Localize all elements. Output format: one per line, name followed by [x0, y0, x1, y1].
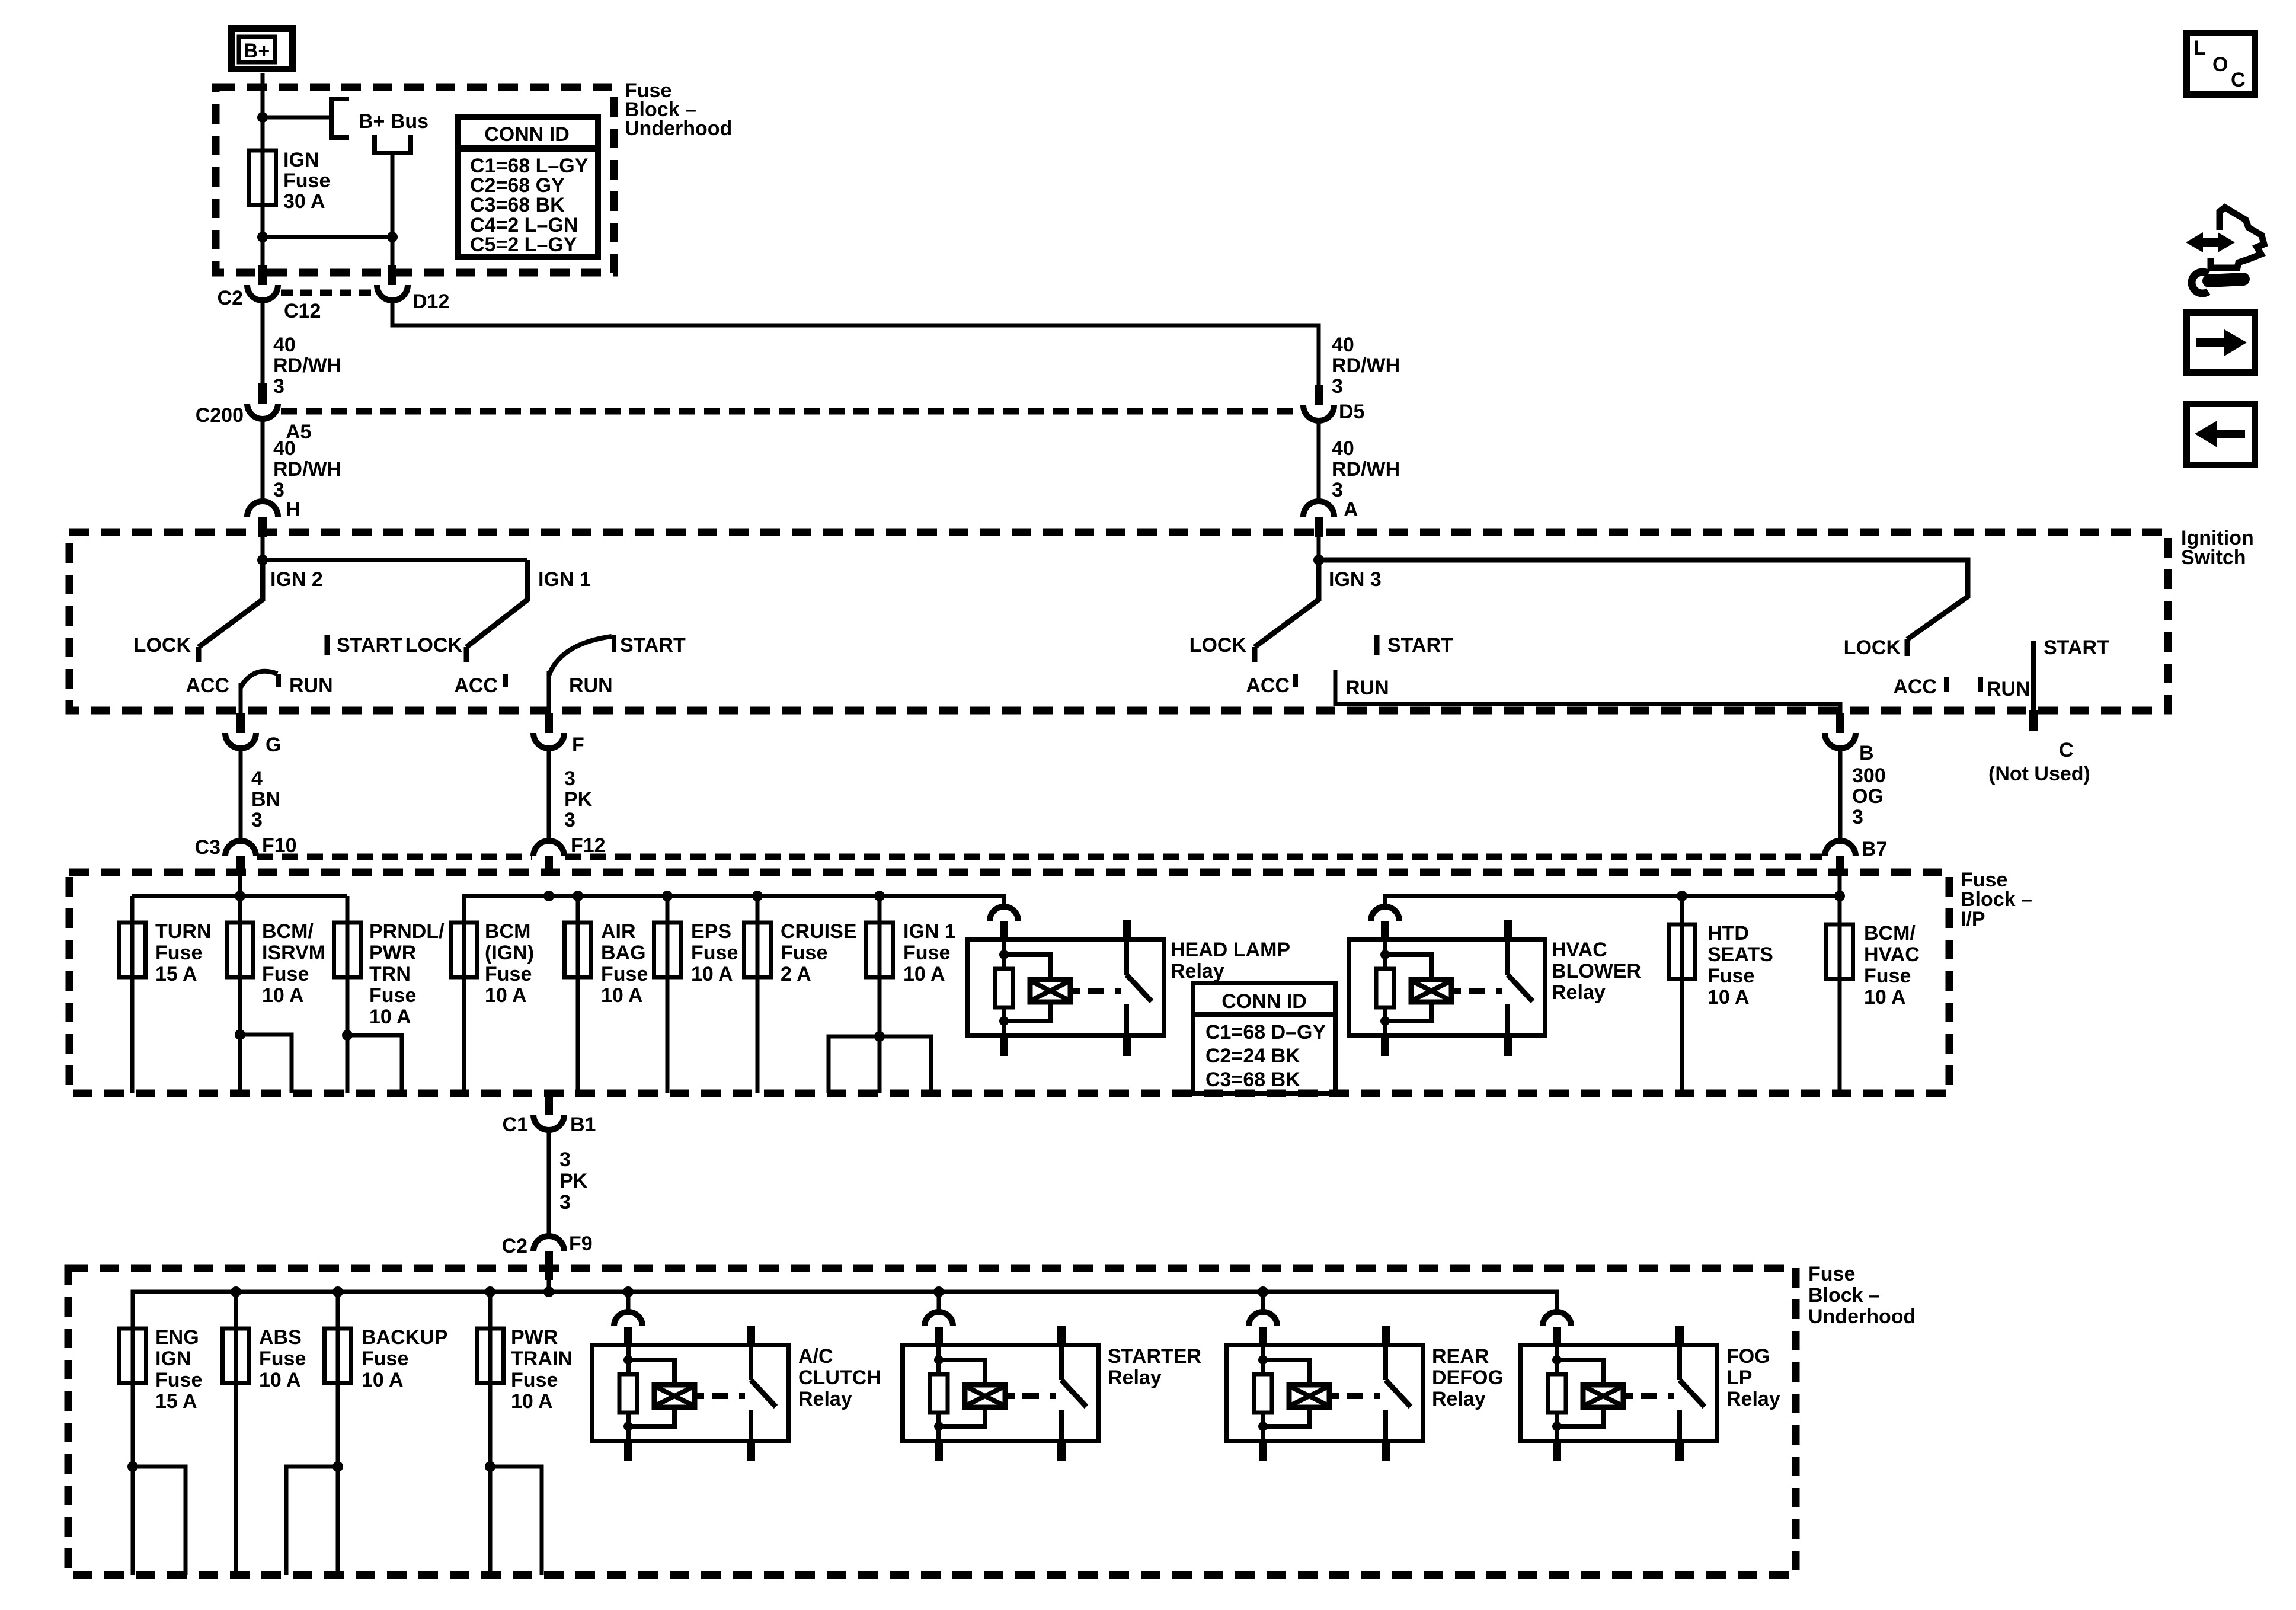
wire B to B7: [1838, 747, 1843, 842]
wire EPS fuse column: [666, 896, 670, 1093]
wire D5 to A: [1317, 421, 1321, 501]
svg-text:H: H: [286, 498, 300, 521]
connector D5 stub: [1315, 385, 1323, 405]
wire BACKUP fuse column: [336, 1292, 340, 1575]
connector F: [533, 733, 584, 756]
Fuse Block Underhood dashed box: [216, 87, 614, 273]
svg-text:F: F: [572, 734, 584, 756]
svg-text:LOCK: LOCK: [1189, 634, 1247, 657]
node BACKUP branch junction: [332, 1461, 343, 1472]
svg-text:4: 4: [251, 767, 263, 790]
svg-text:ISRVM: ISRVM: [262, 942, 325, 964]
svg-text:2 A: 2 A: [781, 963, 811, 985]
svg-text:(Not Used): (Not Used): [1988, 763, 2090, 785]
node F12 right bus junction: [543, 891, 554, 901]
svg-text:PRNDL/: PRNDL/: [369, 920, 445, 943]
connector link C200-D5 dashed: [281, 408, 1300, 415]
svg-text:START: START: [337, 634, 402, 657]
svg-text:Fuse: Fuse: [362, 1347, 408, 1370]
wire IGN3 bus: [1319, 558, 1968, 562]
svg-text:HTD: HTD: [1707, 922, 1749, 945]
node PRNDL branch junction: [342, 1030, 353, 1041]
connector D12 stub: [388, 265, 396, 285]
connector link C12-D12 dashed: [281, 290, 374, 296]
fuse BCM/ISRVM Fuse 10 A: [227, 920, 326, 1007]
relay HEAD LAMP: [968, 907, 1290, 1056]
svg-text:START: START: [1387, 634, 1453, 657]
connector C2 stub: [258, 265, 267, 285]
svg-text:IGN 3: IGN 3: [1329, 568, 1382, 591]
relay A/C CLUTCH: [592, 1312, 881, 1461]
node IGN3 bus junction: [1313, 555, 1324, 565]
svg-text:PWR: PWR: [511, 1326, 558, 1349]
switch IGN2 RUN contact: [279, 674, 333, 697]
wire ENG IGN fuse column: [131, 1329, 135, 1575]
svg-text:Fuse: Fuse: [1864, 965, 1911, 987]
connector A stub: [1315, 517, 1323, 537]
Fuse Block I/P dashed box: [69, 872, 1949, 1093]
svg-text:STARTER: STARTER: [1108, 1345, 1201, 1368]
switch 4 LOCK contact: [1844, 636, 1907, 659]
svg-text:BCM: BCM: [485, 920, 530, 943]
connector B: [1825, 733, 1874, 764]
wire PRNDL branch: [347, 1035, 402, 1093]
svg-text:G: G: [266, 734, 281, 756]
label IGN 1: [538, 568, 591, 591]
connector C3/F10 stub: [236, 856, 245, 876]
svg-text:A: A: [1344, 498, 1358, 521]
svg-text:HVAC: HVAC: [1864, 943, 1920, 966]
node BCM/HVAC junction: [1834, 891, 1845, 901]
svg-text:Fuse: Fuse: [781, 942, 827, 964]
svg-text:CLUTCH: CLUTCH: [798, 1366, 881, 1389]
label 40 RD/WH 3 right upper: [1332, 334, 1400, 398]
relay REAR DEFOG: [1227, 1312, 1504, 1461]
switch 4 wiper arm: [1319, 560, 1968, 639]
svg-text:F10: F10: [262, 834, 297, 857]
switch IGN1 wiper arm: [466, 560, 527, 647]
svg-text:3: 3: [564, 767, 575, 790]
svg-text:Fuse: Fuse: [262, 963, 309, 985]
svg-text:Fuse: Fuse: [1707, 965, 1754, 987]
svg-text:10 A: 10 A: [601, 984, 643, 1007]
svg-text:IGN: IGN: [155, 1347, 191, 1370]
svg-text:RUN: RUN: [289, 674, 333, 697]
switch IGN2 ACC contact: [186, 674, 229, 697]
node PWR TRAIN branch junction: [485, 1461, 495, 1472]
svg-text:Underhood: Underhood: [625, 117, 732, 140]
label IGN 3: [1329, 568, 1382, 591]
wire IGN2/IGN1 bus: [263, 558, 527, 562]
svg-text:10 A: 10 A: [485, 984, 527, 1007]
wire A into switch: [1317, 537, 1321, 560]
svg-text:C1: C1: [503, 1113, 528, 1136]
svg-text:PK: PK: [559, 1170, 588, 1192]
label Fuse Block - Underhood: [625, 79, 732, 140]
connector B7 stub: [1836, 856, 1844, 876]
svg-text:C12: C12: [284, 300, 321, 322]
wire CRUISE fuse column: [756, 896, 760, 1093]
connector C1/B1 stub: [545, 1093, 553, 1115]
svg-text:3: 3: [273, 375, 284, 398]
svg-text:START: START: [620, 634, 686, 657]
svg-text:Fuse: Fuse: [511, 1369, 558, 1391]
switch IGN3 START contact: [1377, 634, 1453, 657]
fuse ABS Fuse 10 A: [223, 1326, 306, 1391]
svg-text:10 A: 10 A: [362, 1369, 404, 1391]
svg-text:RUN: RUN: [1345, 677, 1389, 699]
node CRUISE junction: [752, 891, 763, 901]
svg-text:C2: C2: [218, 287, 243, 309]
svg-text:3: 3: [273, 479, 284, 501]
connector H stub: [258, 517, 267, 537]
label Fuse Block - Underhood lower: [1808, 1263, 1916, 1328]
icon LOC box: [2187, 33, 2255, 95]
switch IGN3 ACC contact: [1246, 674, 1296, 697]
svg-text:10 A: 10 A: [511, 1390, 553, 1413]
wire ABS fuse column: [234, 1292, 238, 1575]
connector C2/C12: [218, 285, 321, 322]
svg-text:Fuse: Fuse: [259, 1347, 306, 1370]
wire F9 into underhood block: [547, 1280, 551, 1292]
svg-text:F9: F9: [569, 1233, 593, 1255]
svg-text:D12: D12: [412, 290, 449, 313]
svg-text:O: O: [2212, 53, 2228, 76]
wire fuse output crossover: [263, 235, 392, 239]
CONN ID table underhood: [458, 117, 598, 257]
node AIR BAG junction: [573, 891, 583, 901]
svg-text:ENG: ENG: [155, 1326, 199, 1349]
svg-text:TRN: TRN: [369, 963, 411, 985]
label 4 BN 3: [251, 767, 280, 831]
icon forward arrow box: [2187, 313, 2255, 373]
svg-text:REAR: REAR: [1432, 1345, 1489, 1368]
svg-text:BN: BN: [251, 788, 280, 811]
svg-text:Underhood: Underhood: [1808, 1305, 1916, 1328]
svg-text:LOCK: LOCK: [1844, 636, 1901, 659]
svg-text:SEATS: SEATS: [1707, 943, 1773, 966]
switch IGN2 START contact: [327, 634, 402, 657]
svg-text:B+ Bus: B+ Bus: [359, 110, 428, 133]
connector C200 stub: [258, 383, 267, 404]
svg-text:10 A: 10 A: [262, 984, 304, 1007]
wire PRNDL fuse column: [346, 896, 350, 1093]
svg-text:C: C: [2231, 69, 2246, 91]
svg-text:Relay: Relay: [1552, 981, 1606, 1004]
B+ Bus terminal bracket: [331, 99, 349, 137]
svg-text:Fuse: Fuse: [903, 942, 950, 964]
svg-text:OG: OG: [1852, 785, 1884, 808]
wire right I/P bus: [464, 896, 1004, 923]
svg-text:HEAD LAMP: HEAD LAMP: [1171, 939, 1290, 961]
fuse PWR TRAIN Fuse 10 A: [477, 1326, 573, 1413]
label 40 RD/WH 3 left lower: [273, 437, 341, 501]
wire F10 to C1 column: [238, 876, 242, 1093]
switch IGN2 wiper arm: [199, 560, 263, 647]
svg-text:Fuse: Fuse: [155, 1369, 202, 1391]
connector A: [1303, 498, 1358, 521]
connector D12: [377, 285, 449, 313]
svg-text:BAG: BAG: [601, 942, 646, 964]
connector C2/F9: [502, 1233, 593, 1257]
svg-text:C3: C3: [195, 836, 220, 859]
switch 4 ACC contact: [1893, 676, 1946, 698]
switch IGN2 LOCK contact: [134, 634, 199, 662]
node IGN 1 branch junction: [874, 1031, 885, 1042]
svg-text:300: 300: [1852, 764, 1886, 787]
svg-text:RUN: RUN: [569, 674, 613, 697]
switch 4 RUN contact: [1981, 677, 2030, 700]
svg-text:TURN: TURN: [155, 920, 211, 943]
svg-text:LOCK: LOCK: [405, 634, 463, 657]
wire A5 to H: [261, 419, 265, 501]
svg-text:3: 3: [251, 809, 263, 831]
node STARTER relay junction: [933, 1286, 944, 1297]
svg-text:10 A: 10 A: [691, 963, 733, 985]
wire B+ to IGN fuse: [261, 73, 265, 266]
fuse HTD SEATS Fuse 10 A: [1669, 922, 1773, 1009]
wire D12 to D5: [392, 299, 1319, 385]
svg-text:CRUISE: CRUISE: [781, 920, 856, 943]
label B+ Bus: [359, 110, 428, 133]
svg-text:D5: D5: [1339, 401, 1364, 423]
svg-text:3: 3: [559, 1191, 571, 1214]
wire H into switch: [261, 537, 265, 560]
connector F stub: [545, 713, 553, 733]
wire PWR TRAIN fuse column: [488, 1292, 493, 1575]
connector G stub: [236, 713, 245, 733]
wire IGN 1 fuse branch: [829, 1036, 931, 1093]
icon vehicle service symbol: [2186, 207, 2264, 293]
label Fuse Block - I/P: [1961, 869, 2032, 930]
node REAR DEFOG relay junction: [1258, 1286, 1268, 1297]
connector C2/F9 stub: [545, 1251, 553, 1280]
Ignition Switch dashed box: [69, 532, 2168, 710]
svg-text:Relay: Relay: [798, 1388, 852, 1410]
svg-text:3: 3: [559, 1148, 571, 1171]
wire IGN 1 fuse column: [878, 896, 882, 1093]
label 3 PK 3: [564, 767, 593, 831]
svg-text:C3=68 BK: C3=68 BK: [1205, 1068, 1300, 1091]
fuse CRUISE Fuse 2 A: [744, 920, 857, 985]
wire STARTER relay drop: [937, 1292, 941, 1313]
svg-text:ACC: ACC: [1893, 676, 1937, 698]
svg-text:ACC: ACC: [1246, 674, 1290, 697]
svg-text:PK: PK: [564, 788, 593, 811]
label Ignition Switch: [2181, 527, 2254, 569]
label 300 OG 3: [1852, 764, 1886, 828]
node F9 bus junction: [543, 1286, 554, 1297]
switch IGN1 RUN-START wiper: [549, 636, 612, 676]
svg-text:HVAC: HVAC: [1552, 939, 1607, 961]
connector C200/A5: [196, 404, 312, 443]
wire G to F10: [239, 747, 243, 842]
svg-text:Switch: Switch: [2181, 546, 2246, 569]
switch IGN1 START contact: [614, 634, 686, 657]
svg-text:3: 3: [1332, 375, 1343, 398]
wire C2 to C200: [261, 299, 265, 383]
wire BCM IGN fuse column: [462, 923, 466, 1093]
svg-text:C5=2 L–GY: C5=2 L–GY: [470, 233, 577, 256]
svg-text:Relay: Relay: [1171, 960, 1224, 982]
label C (Not Used): [1988, 739, 2090, 785]
wire BACKUP branch: [286, 1467, 338, 1575]
fuse AIR BAG Fuse 10 A: [565, 920, 648, 1007]
CONN ID table I/P: [1193, 983, 1335, 1093]
svg-text:F12: F12: [571, 834, 606, 857]
svg-text:Fuse: Fuse: [601, 963, 648, 985]
B+ Bus feed bracket: [375, 135, 411, 153]
svg-text:C200: C200: [196, 404, 244, 427]
connector F12 stub: [545, 856, 553, 876]
svg-text:LOCK: LOCK: [134, 634, 191, 657]
svg-text:ACC: ACC: [454, 674, 498, 697]
svg-text:RD/WH: RD/WH: [273, 458, 341, 481]
fuse IGN Fuse 30 A: [250, 149, 331, 213]
svg-text:L: L: [2193, 37, 2206, 59]
wire B+ Bus to D12: [391, 155, 395, 266]
label 3 PK 3 lower: [559, 1148, 588, 1214]
wire underhood bus: [133, 1292, 1557, 1329]
svg-text:40: 40: [273, 334, 296, 356]
wire HVAC section bus: [1385, 896, 1840, 906]
fuse IGN 1 Fuse 10 A: [866, 920, 956, 985]
svg-text:3: 3: [1332, 479, 1343, 501]
svg-text:Relay: Relay: [1726, 1388, 1780, 1410]
svg-text:C1=68 D–GY: C1=68 D–GY: [1205, 1021, 1326, 1044]
switch IGN2 ACC-RUN wiper: [241, 671, 277, 687]
node EPS junction: [662, 891, 673, 901]
svg-text:40: 40: [1332, 334, 1354, 356]
svg-text:B: B: [1859, 742, 1874, 764]
wire B1 to C2/F9: [547, 1129, 551, 1236]
svg-text:ABS: ABS: [259, 1326, 302, 1349]
relay STARTER: [903, 1312, 1201, 1461]
svg-text:PWR: PWR: [369, 942, 416, 964]
svg-text:15 A: 15 A: [155, 963, 197, 985]
svg-text:15 A: 15 A: [155, 1390, 197, 1413]
svg-text:FOG: FOG: [1726, 1345, 1770, 1368]
wire ENG IGN branch: [133, 1467, 186, 1575]
wire ACC output to G: [239, 683, 243, 713]
wire F to F12: [547, 747, 551, 842]
fuse BACKUP Fuse 10 A: [325, 1326, 448, 1391]
svg-text:Relay: Relay: [1432, 1388, 1486, 1410]
svg-text:40: 40: [1332, 437, 1354, 460]
node ABS junction: [231, 1286, 241, 1297]
wire A/C relay drop: [626, 1292, 631, 1313]
svg-text:B+: B+: [244, 40, 270, 62]
svg-text:EPS: EPS: [691, 920, 731, 943]
Fuse Block Underhood lower dashed box: [68, 1268, 1796, 1575]
fuse EPS Fuse 10 A: [654, 920, 738, 985]
fuse BCM/HVAC Fuse 10 A: [1827, 922, 1920, 1009]
connector B stub: [1836, 713, 1844, 733]
svg-text:Fuse: Fuse: [283, 169, 330, 192]
relay HVAC BLOWER: [1349, 907, 1641, 1056]
fuse TURN Fuse 15 A: [119, 920, 212, 985]
svg-text:A/C: A/C: [798, 1345, 833, 1368]
svg-text:RD/WH: RD/WH: [1332, 458, 1400, 481]
node IGN 1 fuse junction: [874, 891, 885, 901]
svg-text:3: 3: [564, 809, 575, 831]
svg-text:Fuse: Fuse: [155, 942, 202, 964]
svg-text:Fuse: Fuse: [1808, 1263, 1855, 1285]
switch IGN1 LOCK contact: [405, 634, 466, 662]
svg-text:BCM/: BCM/: [1864, 922, 1916, 945]
svg-text:DEFOG: DEFOG: [1432, 1366, 1504, 1389]
wire HTD SEATS fuse column: [1680, 896, 1684, 1093]
svg-text:BACKUP: BACKUP: [362, 1326, 447, 1349]
connector row dashed link F10-F12-B7: [257, 854, 1822, 860]
svg-text:BCM/: BCM/: [262, 920, 314, 943]
svg-text:Fuse: Fuse: [691, 942, 738, 964]
node B+ bus junction: [257, 112, 268, 123]
wire REAR DEFOG relay drop: [1261, 1292, 1265, 1313]
svg-text:START: START: [2044, 636, 2109, 659]
svg-text:ACC: ACC: [186, 674, 229, 697]
svg-text:TRAIN: TRAIN: [511, 1347, 573, 1370]
svg-text:CONN ID: CONN ID: [484, 123, 570, 146]
svg-text:10 A: 10 A: [903, 963, 945, 985]
svg-text:BLOWER: BLOWER: [1552, 960, 1641, 982]
svg-text:B1: B1: [570, 1113, 596, 1136]
svg-text:Fuse: Fuse: [369, 984, 416, 1007]
junction at D12 branch: [387, 232, 398, 242]
switch 4 START contact wire: [2033, 636, 2109, 710]
svg-text:Block –: Block –: [1808, 1284, 1880, 1307]
icon back arrow box: [2187, 404, 2255, 465]
node HTD SEATS junction: [1677, 891, 1687, 901]
svg-text:Relay: Relay: [1108, 1366, 1162, 1389]
connector D5: [1303, 401, 1364, 423]
node F10 bus junction: [235, 891, 245, 901]
svg-text:RD/WH: RD/WH: [1332, 354, 1400, 377]
svg-text:IGN: IGN: [283, 149, 319, 171]
switch IGN3 RUN contact wire to B: [1335, 670, 1840, 713]
connector C3/F10: [195, 834, 297, 859]
wire left I/P bus: [132, 894, 347, 898]
svg-text:C: C: [2059, 739, 2074, 761]
svg-text:3: 3: [1852, 806, 1863, 828]
svg-text:30 A: 30 A: [283, 190, 325, 213]
wire tap to B+ Bus: [263, 116, 330, 120]
svg-text:CONN ID: CONN ID: [1221, 990, 1307, 1013]
svg-text:10 A: 10 A: [1707, 986, 1750, 1009]
power symbol B+: [232, 29, 293, 69]
svg-text:RD/WH: RD/WH: [273, 354, 341, 377]
switch IGN3 LOCK contact: [1189, 634, 1255, 662]
svg-text:10 A: 10 A: [259, 1369, 301, 1391]
label IGN 2: [270, 568, 323, 591]
wire BCM/HVAC fuse column: [1838, 876, 1842, 1093]
svg-text:I/P: I/P: [1961, 908, 1985, 930]
terminal C stub: [2029, 710, 2038, 731]
label 40 RD/WH 3 left upper: [273, 334, 341, 398]
connector G: [225, 733, 281, 756]
wire PWR TRAIN branch: [490, 1467, 542, 1575]
switch IGN1 RUN contact wire to F: [549, 671, 613, 713]
node ENG IGN branch junction: [127, 1461, 138, 1472]
svg-text:C2: C2: [502, 1235, 527, 1257]
junction at fuse output: [257, 232, 268, 242]
svg-text:IGN 1: IGN 1: [538, 568, 591, 591]
svg-text:IGN 2: IGN 2: [270, 568, 323, 591]
svg-text:10 A: 10 A: [369, 1006, 411, 1028]
svg-text:B7: B7: [1862, 838, 1887, 860]
svg-text:10 A: 10 A: [1864, 986, 1906, 1009]
connector H: [247, 498, 300, 521]
